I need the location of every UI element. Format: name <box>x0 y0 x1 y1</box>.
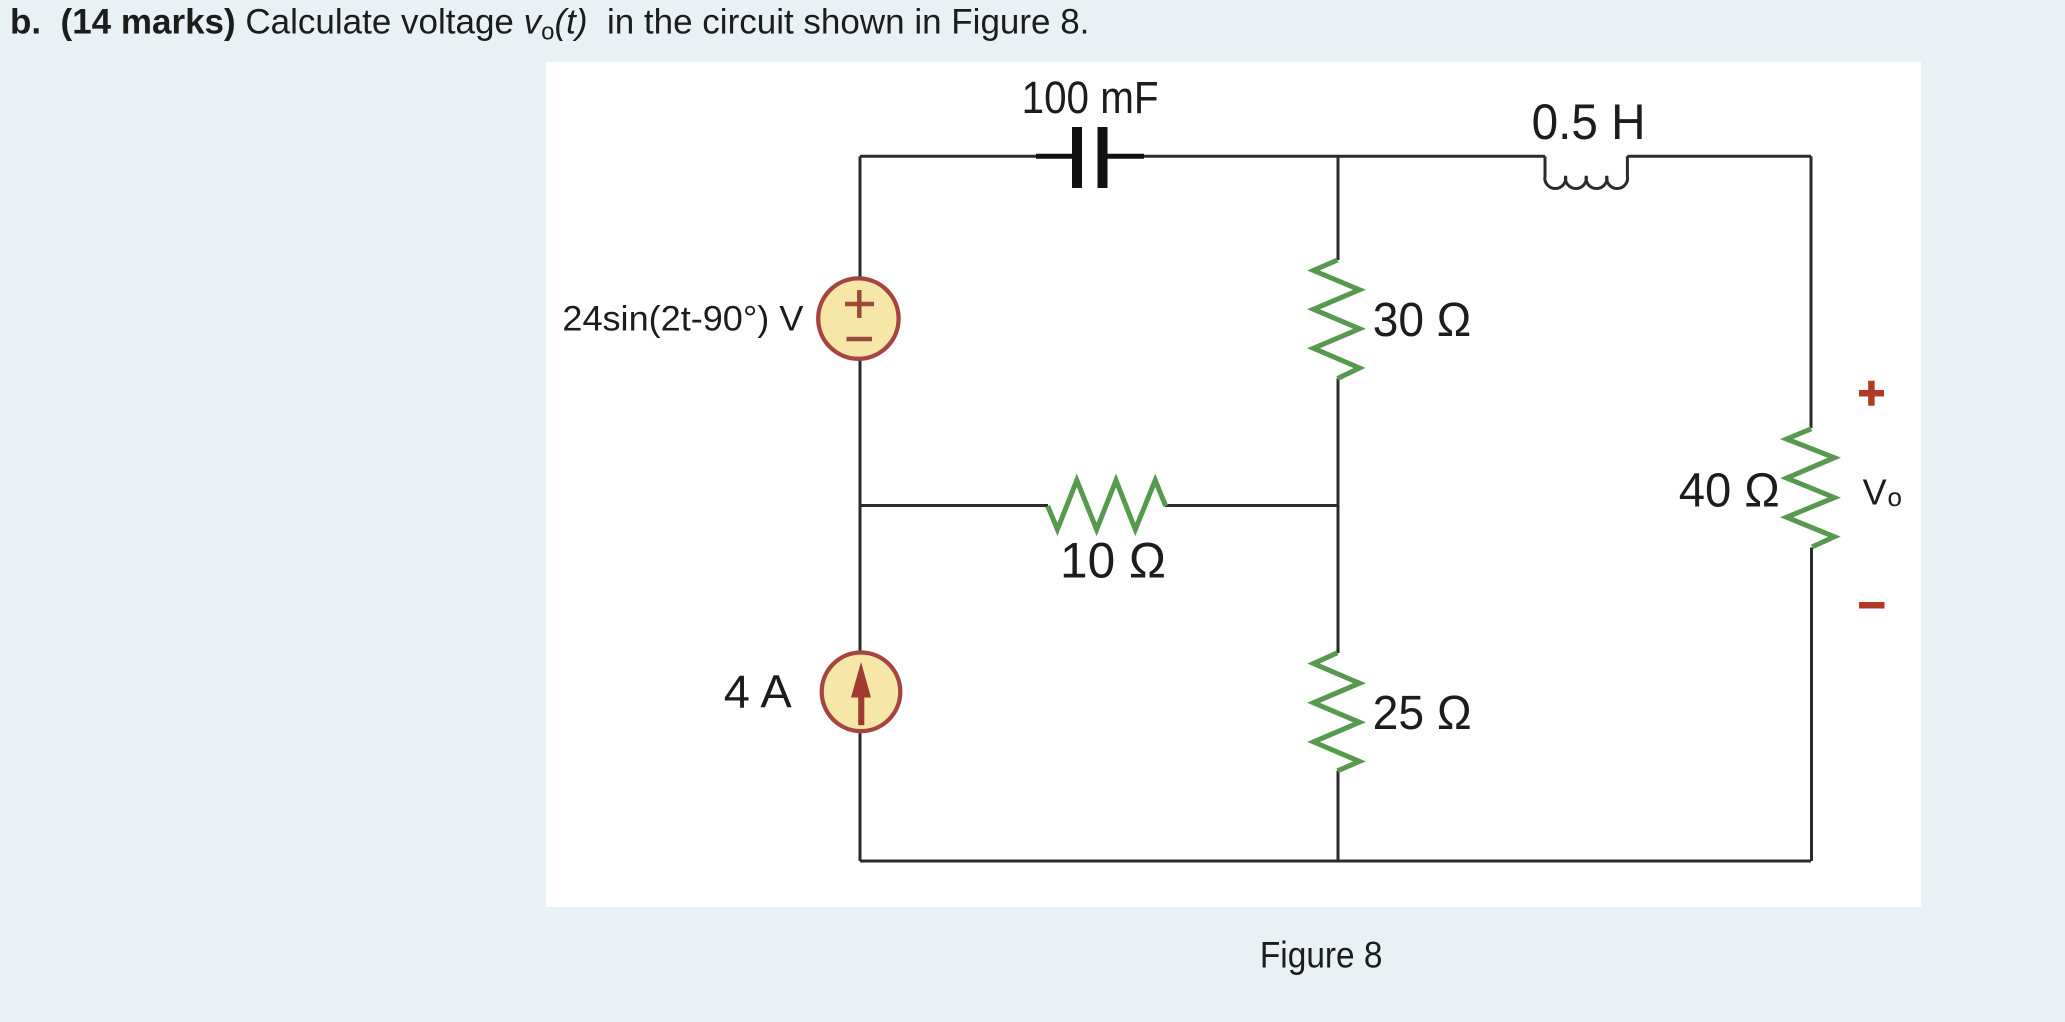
voltage source VS circle <box>818 278 898 358</box>
svg-text:V: V <box>1863 472 1887 513</box>
wire top-left horizontal <box>860 155 1073 158</box>
svg-text:24sin(2t-90°) V: 24sin(2t-90°) V <box>562 300 804 339</box>
svg-text:4 A: 4 A <box>724 666 792 718</box>
resistor R 40ohm zigzag <box>1787 429 1835 547</box>
wire bottom horizontal <box>860 860 1811 863</box>
wire left vertical middle <box>859 361 862 652</box>
resistor R 25ohm zigzag <box>1314 653 1360 771</box>
voltage source minus sign <box>847 337 873 342</box>
wire middle horizontal right <box>1165 504 1338 507</box>
wire left vertical lower <box>859 733 862 862</box>
wire middle vertical top <box>1337 156 1340 260</box>
capacitor C 100 mF leads <box>1036 154 1144 159</box>
svg-text:Figure 8: Figure 8 <box>1260 935 1383 976</box>
wire top-right horizontal <box>1627 155 1811 158</box>
wire left vertical upper <box>859 156 862 277</box>
wire middle vertical center <box>1337 379 1340 654</box>
capacitor C 100 mF plates <box>1077 127 1103 188</box>
svg-text:100 mF: 100 mF <box>1022 72 1159 123</box>
current source IS circle <box>822 653 901 732</box>
wire right vertical lower <box>1810 548 1813 862</box>
output plus sign <box>1859 381 1884 406</box>
svg-text:40 Ω: 40 Ω <box>1679 465 1780 518</box>
svg-text:30 Ω: 30 Ω <box>1373 294 1472 347</box>
svg-text:o: o <box>1888 482 1902 512</box>
wire middle horizontal left <box>860 504 1048 507</box>
wire top-middle horizontal <box>1107 155 1545 158</box>
wire right vertical upper <box>1810 156 1813 428</box>
voltage source plus sign <box>845 290 874 339</box>
svg-text:0.5 H: 0.5 H <box>1532 94 1646 150</box>
output minus sign <box>1859 602 1885 609</box>
svg-text:b. (14 marks) Calculate volta: b. (14 marks) Calculate voltage vo(t) in… <box>10 3 1089 46</box>
resistor R 10ohm zigzag <box>1048 480 1166 529</box>
inductor L 0.5 H <box>1545 156 1628 188</box>
svg-text:25 Ω: 25 Ω <box>1373 687 1472 740</box>
white figure panel <box>546 62 1921 907</box>
resistor R 30ohm zigzag <box>1314 260 1360 379</box>
svg-text:10 Ω: 10 Ω <box>1060 532 1166 588</box>
wire middle vertical bottom <box>1337 771 1340 861</box>
current source arrow <box>851 662 871 725</box>
